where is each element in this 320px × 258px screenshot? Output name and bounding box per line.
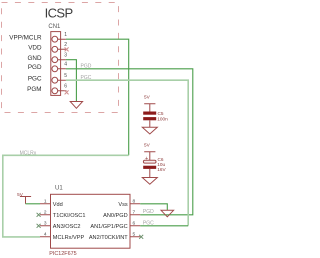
wire MCLRx run: left along y=155.8, down left edge, to U1 pin4: [3, 155, 129, 237]
capacitor C6 polarized plates with plus sign: [143, 156, 156, 178]
connector CN1 body: [51, 32, 67, 96]
svg-text:5V: 5V: [144, 95, 151, 100]
svg-text:PGD: PGD: [28, 64, 42, 71]
svg-text:CN1: CN1: [48, 24, 61, 30]
+5V power symbol above C6: [144, 152, 155, 160]
+5V power symbol at U1 pin 1: [20, 197, 31, 204]
svg-text:U1: U1: [55, 186, 63, 192]
svg-text:Vdd: Vdd: [53, 202, 63, 208]
svg-text:VPP/MCLR: VPP/MCLR: [9, 35, 42, 42]
svg-text:100n: 100n: [157, 117, 168, 122]
svg-text:PGD: PGD: [81, 64, 92, 70]
svg-text:7: 7: [133, 210, 136, 216]
svg-text:16V: 16V: [157, 167, 166, 172]
wire VPP/MCLR net: CN1.1 to the right, down at x=129: [66, 39, 129, 155]
svg-text:6: 6: [133, 221, 136, 227]
ground symbol at U1 pin 8: [161, 210, 174, 217]
capacitor C5 plates: [143, 112, 156, 128]
svg-text:4: 4: [64, 62, 67, 68]
wire U1 pin 8 Vss to ground: [140, 204, 167, 211]
svg-text:5V: 5V: [17, 192, 24, 197]
svg-text:PGC: PGC: [81, 75, 92, 81]
no-connect X at U1 pin 3: [37, 224, 41, 228]
svg-text:MCLRx/VPP: MCLRx/VPP: [53, 235, 85, 241]
svg-text:PGC: PGC: [143, 220, 154, 226]
svg-text:C5: C5: [158, 111, 164, 116]
svg-text:5: 5: [133, 232, 136, 238]
no-connect X at CN1 pin 6: [65, 90, 69, 94]
svg-text:3: 3: [44, 221, 47, 227]
no-connect X at CN1 pin 2: [65, 47, 69, 51]
svg-text:3: 3: [64, 53, 67, 59]
svg-text:AN1/GP1/PGC: AN1/GP1/PGC: [90, 224, 127, 230]
svg-text:PIC12F675: PIC12F675: [49, 251, 76, 257]
svg-text:8: 8: [133, 199, 136, 205]
svg-text:5V: 5V: [144, 143, 151, 148]
svg-text:ICSP: ICSP: [45, 6, 73, 21]
svg-text:1: 1: [64, 32, 67, 38]
svg-text:4: 4: [44, 232, 47, 238]
IC U1 left pin stubs: [40, 204, 51, 237]
svg-text:Vss: Vss: [118, 202, 128, 208]
ground symbol below C6: [142, 178, 157, 185]
wire PGC net lower run to U1 pin6: [140, 225, 188, 227]
svg-text:AN3/OSC2: AN3/OSC2: [53, 224, 81, 230]
svg-text:PGD: PGD: [143, 209, 154, 215]
svg-text:6: 6: [64, 84, 67, 90]
ground symbol below CN1: [70, 102, 82, 109]
+5V power symbol above C5: [144, 104, 155, 112]
svg-text:2: 2: [44, 210, 47, 216]
svg-text:MCLRx: MCLRx: [20, 151, 37, 157]
svg-text:PGM: PGM: [27, 86, 41, 93]
wire PGC net upper: CN1.5 to right edge and down: [66, 80, 188, 225]
svg-text:GND: GND: [28, 55, 42, 62]
ground symbol below C5: [142, 127, 157, 134]
no-connect X at U1 pin 5: [139, 235, 143, 239]
svg-text:VDD: VDD: [28, 45, 42, 52]
no-connect X at U1 pin 2: [37, 213, 41, 217]
svg-text:AN2/T0CKI/INT: AN2/T0CKI/INT: [89, 235, 128, 241]
svg-text:AN0/PGD: AN0/PGD: [103, 213, 128, 219]
svg-text:2: 2: [64, 42, 67, 48]
wire GND net from CN1.3: [66, 60, 77, 102]
wire 5V to U1 pin 1: [26, 203, 41, 205]
svg-text:5: 5: [64, 73, 67, 79]
IC U1 body: [51, 194, 131, 248]
ICSP module dashed frame: [2, 3, 119, 113]
svg-text:1: 1: [44, 199, 47, 205]
wire PGD net upper: CN1.4 to right edge and down to U1 pin7: [66, 69, 193, 215]
IC U1 right pin stubs: [130, 204, 140, 237]
svg-text:T1CKI/OSC1: T1CKI/OSC1: [53, 213, 86, 219]
svg-text:PGC: PGC: [28, 76, 42, 83]
